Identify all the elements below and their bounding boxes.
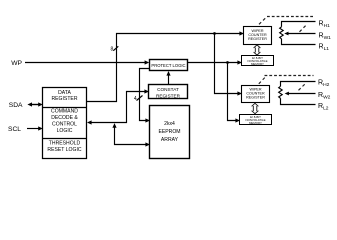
arrowhead SDA left to pin xyxy=(27,102,32,106)
svg-text:RW2: RW2 xyxy=(318,92,331,101)
wire branch to NONVOLATILE MEMORY 2 xyxy=(228,63,238,121)
resistor element R2 xyxy=(279,86,283,98)
arrowhead up into CONSTAT net xyxy=(112,123,116,128)
svg-text:LOGIC: LOGIC xyxy=(57,128,73,134)
svg-text:MEMORY: MEMORY xyxy=(249,121,262,125)
svg-text:MEMORY: MEMORY xyxy=(251,62,264,66)
arrowhead SCL into box xyxy=(38,126,43,130)
box PROTECT LOGIC xyxy=(150,60,188,71)
arrowhead bus into WCR1 xyxy=(239,31,244,35)
resistor element R1 xyxy=(280,27,284,39)
wire RL2 terminal xyxy=(281,98,316,104)
svg-text:SDA: SDA xyxy=(9,102,23,109)
potentiometer R2 (XDCP) xyxy=(279,82,316,105)
wire hollow bidirectional arrow WCR1-NVM1 xyxy=(254,45,261,55)
wire CONSTAT net to COMMAND DECODE xyxy=(90,92,146,123)
arrowhead 4-bus into EEPROM xyxy=(145,118,150,122)
wire branch EEPROM to CONSTAT net xyxy=(115,127,148,145)
arrowhead into CONSTAT xyxy=(144,89,149,93)
wire dashed XDCP control 1 xyxy=(259,17,314,32)
svg-text:RH2: RH2 xyxy=(318,80,330,89)
box wiper counter register 2 (WCR) xyxy=(242,86,270,103)
box nonvolatile memory 1 xyxy=(242,56,274,66)
wire RH2 terminal xyxy=(281,82,316,87)
arrowhead into NVM1 xyxy=(237,60,242,64)
potentiometer R1 (XDCP) xyxy=(280,22,316,45)
wire bus width tick 8 xyxy=(113,46,118,50)
wire 4-bit bus PROTECT LOGIC to EEPROM ARRAY xyxy=(140,69,150,121)
svg-text:DECODE &: DECODE & xyxy=(51,115,78,121)
arrowhead into NVM2 xyxy=(235,118,240,122)
arrowhead wiper R2 xyxy=(285,92,289,96)
box wiper counter register 1 (WCR) xyxy=(244,27,272,45)
wire bus branch to WCR2 xyxy=(215,34,240,94)
box nonvolatile memory 2 xyxy=(240,115,272,125)
wire CONSTAT REGISTER to PROTECT LOGIC xyxy=(168,74,170,85)
box 2kx4 EEPROM ARRAY xyxy=(150,106,190,159)
node junction on bus at x214 xyxy=(213,32,216,35)
svg-text:THRESHOLD: THRESHOLD xyxy=(49,141,81,147)
arrowhead wiper R1 xyxy=(284,32,288,36)
svg-text:WP: WP xyxy=(11,60,22,67)
svg-text:RW1: RW1 xyxy=(319,33,332,42)
box DATA REGISTER / COMMAND DECODE / THRESHOLD RESET xyxy=(43,88,87,159)
svg-text:REGISTER: REGISTER xyxy=(156,93,181,98)
wire RW1 wiper xyxy=(288,33,316,35)
svg-text:2kx4: 2kx4 xyxy=(164,121,175,127)
svg-text:RESET LOGIC: RESET LOGIC xyxy=(47,147,81,153)
svg-text:SCL: SCL xyxy=(8,126,21,133)
svg-text:PROTECT LOGIC: PROTECT LOGIC xyxy=(151,63,185,68)
svg-text:4: 4 xyxy=(134,96,137,102)
wire dashed XDCP control 2 xyxy=(259,76,314,91)
svg-text:REGISTER: REGISTER xyxy=(246,96,265,100)
arrowhead left into COMMAND DECODE xyxy=(87,120,92,124)
svg-text:EEPROM: EEPROM xyxy=(158,129,180,135)
wire RW2 wiper xyxy=(288,93,316,95)
svg-text:RL1: RL1 xyxy=(319,44,330,53)
wire SCL to COMMAND DECODE xyxy=(27,128,40,130)
svg-text:DATA: DATA xyxy=(58,90,71,96)
wire bus width tick 4 xyxy=(137,96,143,101)
svg-text:REGISTER: REGISTER xyxy=(248,37,267,41)
arrowhead EEPROM write into EEPROM xyxy=(145,142,150,146)
svg-text:CONSTAT: CONSTAT xyxy=(157,87,179,92)
svg-text:8: 8 xyxy=(111,46,114,52)
svg-text:REGISTER: REGISTER xyxy=(51,96,77,102)
svg-text:CONTROL: CONTROL xyxy=(52,122,77,128)
wire WP to PROTECT LOGIC xyxy=(25,62,146,64)
wire RL1 terminal xyxy=(282,39,316,45)
svg-text:RH1: RH1 xyxy=(319,21,331,30)
box CONSTAT REGISTER xyxy=(149,85,188,99)
wire hollow bidirectional arrow WCR2-NVM2 xyxy=(252,103,259,113)
svg-text:RL2: RL2 xyxy=(318,103,329,112)
arrowhead branch into WCR2 xyxy=(237,91,242,95)
svg-text:COMMAND: COMMAND xyxy=(51,109,78,115)
node junction at x227 xyxy=(226,61,229,64)
svg-text:ARRAY: ARRAY xyxy=(161,137,179,143)
arrowhead SDA right into box xyxy=(38,102,43,106)
arrowhead WP into PROTECT LOGIC xyxy=(145,60,150,64)
wire 8-bit bus DATA REGISTER to WCR1 xyxy=(86,34,241,102)
wire SDA bidirectional to DATA REGISTER xyxy=(30,104,40,106)
wire RH1 terminal xyxy=(282,22,316,27)
wire PROTECT LOGIC to NONVOLATILE MEMORY 1 xyxy=(188,62,240,64)
arrowhead CONSTAT up into PROTECT LOGIC xyxy=(166,71,170,76)
